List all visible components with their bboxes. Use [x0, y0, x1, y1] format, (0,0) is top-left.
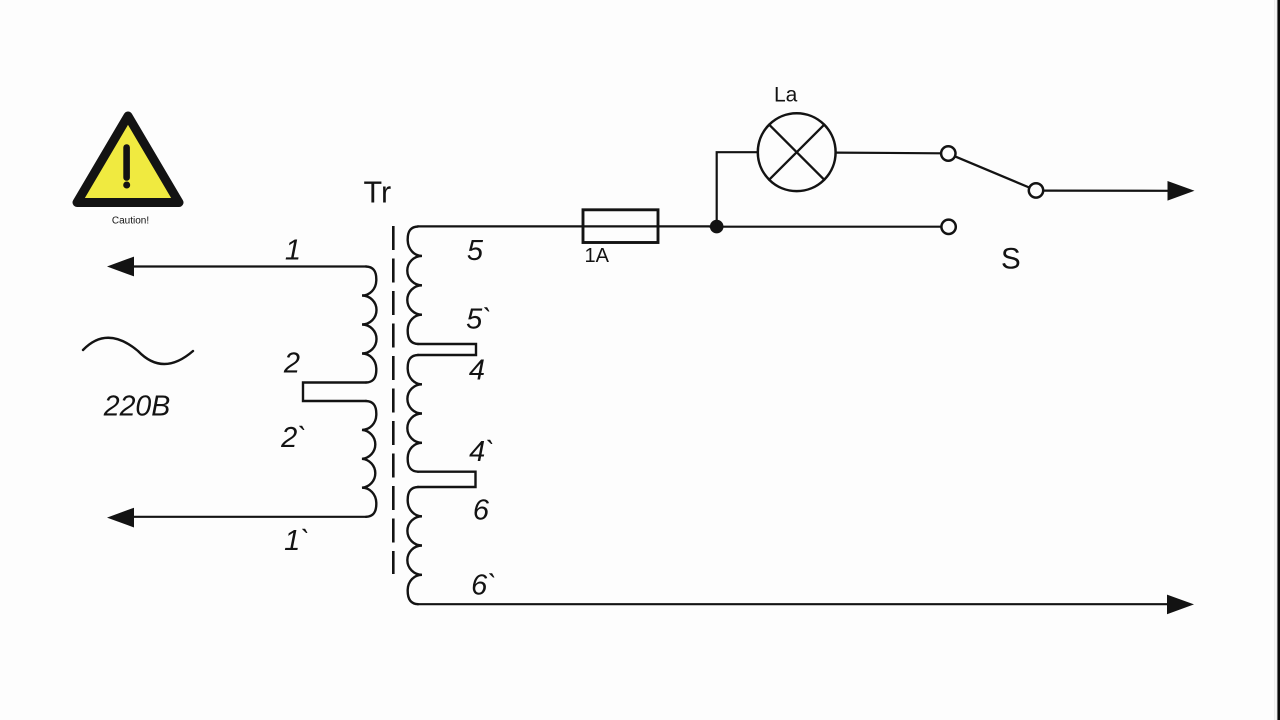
svg-text:S: S — [1001, 243, 1021, 276]
transformer core — [392, 226, 395, 574]
AC source 220V — [83, 338, 193, 423]
wire junction up to lamp — [717, 152, 758, 226]
svg-text:2: 2 — [283, 348, 300, 380]
svg-text:La: La — [774, 83, 798, 106]
arrow wire 1 — [107, 257, 134, 277]
fuse F 1A — [583, 210, 658, 243]
transformer secondary winding 5-5` — [407, 227, 422, 345]
transformer primary winding 1-2 — [362, 267, 377, 383]
svg-text:1: 1 — [285, 235, 301, 267]
wire lamp to switch top contact — [836, 152, 941, 155]
svg-text:Tr: Tr — [364, 176, 392, 210]
wire junction to switch lower contact — [710, 226, 941, 228]
svg-text:2`: 2` — [280, 422, 307, 454]
tap wire 2 — [303, 383, 366, 402]
svg-text:5: 5 — [467, 235, 484, 267]
svg-text:1`: 1` — [284, 525, 310, 557]
arrow wire 1` — [107, 508, 134, 528]
switch lower contact — [941, 220, 955, 234]
svg-text:4: 4 — [469, 355, 485, 387]
arrow output top — [1168, 181, 1195, 201]
transformer secondary winding 4-4` — [407, 355, 422, 472]
switch blade — [955, 156, 1029, 187]
switch top contact — [941, 146, 955, 160]
wire 1` — [128, 516, 366, 518]
svg-text:6`: 6` — [471, 570, 497, 602]
warning triangle — [77, 116, 179, 227]
svg-text:4`: 4` — [469, 436, 495, 468]
transformer secondary winding 6-6` — [407, 487, 422, 604]
svg-text:Caution!: Caution! — [112, 216, 149, 227]
svg-text:6: 6 — [473, 495, 490, 527]
switch pole contact — [1029, 183, 1043, 197]
svg-text:5`: 5` — [466, 304, 492, 336]
output wire top — [1043, 190, 1172, 192]
svg-text:1A: 1A — [585, 245, 610, 267]
arrow output bottom — [1167, 595, 1194, 615]
wire 6` bottom — [418, 603, 1170, 605]
svg-text:220B: 220B — [103, 391, 171, 423]
tap wire 5` — [418, 344, 476, 355]
transformer primary winding 2`-1` — [362, 401, 376, 517]
wire through fuse — [583, 225, 710, 227]
wire 5 to fuse — [418, 225, 583, 227]
lamp La — [758, 113, 836, 191]
junction node — [710, 220, 724, 234]
screen right edge artifact — [1274, 0, 1280, 720]
wire 1 — [128, 265, 366, 267]
tap wire 4` — [418, 472, 476, 487]
